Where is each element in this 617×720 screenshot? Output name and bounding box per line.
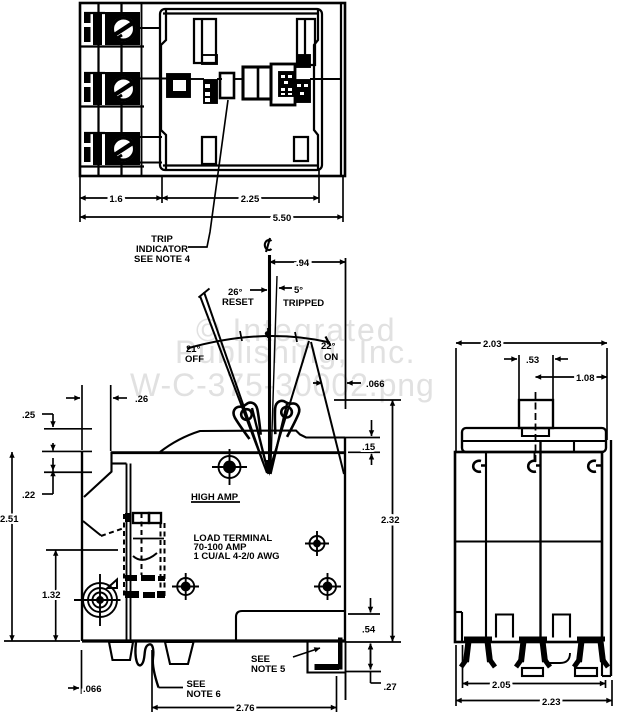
svg-text:1.08: 1.08: [576, 373, 595, 384]
svg-text:2.03: 2.03: [483, 339, 502, 350]
svg-text:W-C-375-30002.png: W-C-375-30002.png: [130, 367, 435, 403]
svg-text:2.32: 2.32: [381, 515, 400, 526]
svg-text:.22: .22: [22, 490, 35, 501]
svg-text:.53: .53: [526, 355, 539, 366]
svg-text:1.32: 1.32: [42, 590, 61, 601]
svg-text:2.05: 2.05: [492, 680, 511, 691]
svg-text:Publishing, Inc.: Publishing, Inc.: [175, 334, 416, 370]
svg-text:2.51: 2.51: [0, 514, 19, 525]
svg-text:.54: .54: [362, 625, 376, 636]
svg-text:22°: 22°: [321, 341, 336, 352]
svg-text:2.25: 2.25: [241, 194, 260, 205]
svg-text:.26: .26: [135, 394, 148, 405]
svg-text:5.50: 5.50: [273, 213, 292, 224]
svg-text:TRIPPED: TRIPPED: [283, 298, 324, 309]
svg-text:.94: .94: [296, 258, 310, 269]
svg-text:.066: .066: [83, 684, 102, 695]
svg-text:RESET: RESET: [222, 297, 254, 308]
svg-text:1 CU/AL 4-2/0 AWG: 1 CU/AL 4-2/0 AWG: [194, 551, 280, 562]
svg-text:SEE NOTE 4: SEE NOTE 4: [134, 254, 191, 265]
svg-text:NOTE 5: NOTE 5: [251, 664, 286, 675]
svg-text:ON: ON: [324, 352, 338, 363]
svg-text:.25: .25: [22, 410, 36, 421]
svg-text:.27: .27: [384, 682, 397, 693]
svg-text:2.76: 2.76: [236, 703, 255, 714]
svg-text:OFF: OFF: [185, 354, 204, 365]
svg-text:2.23: 2.23: [542, 697, 561, 708]
svg-text:NOTE 6: NOTE 6: [187, 689, 221, 700]
svg-text:5°: 5°: [294, 285, 303, 296]
svg-text:1.6: 1.6: [109, 194, 122, 205]
svg-text:.15: .15: [362, 442, 376, 453]
svg-text:.066: .066: [366, 379, 385, 390]
